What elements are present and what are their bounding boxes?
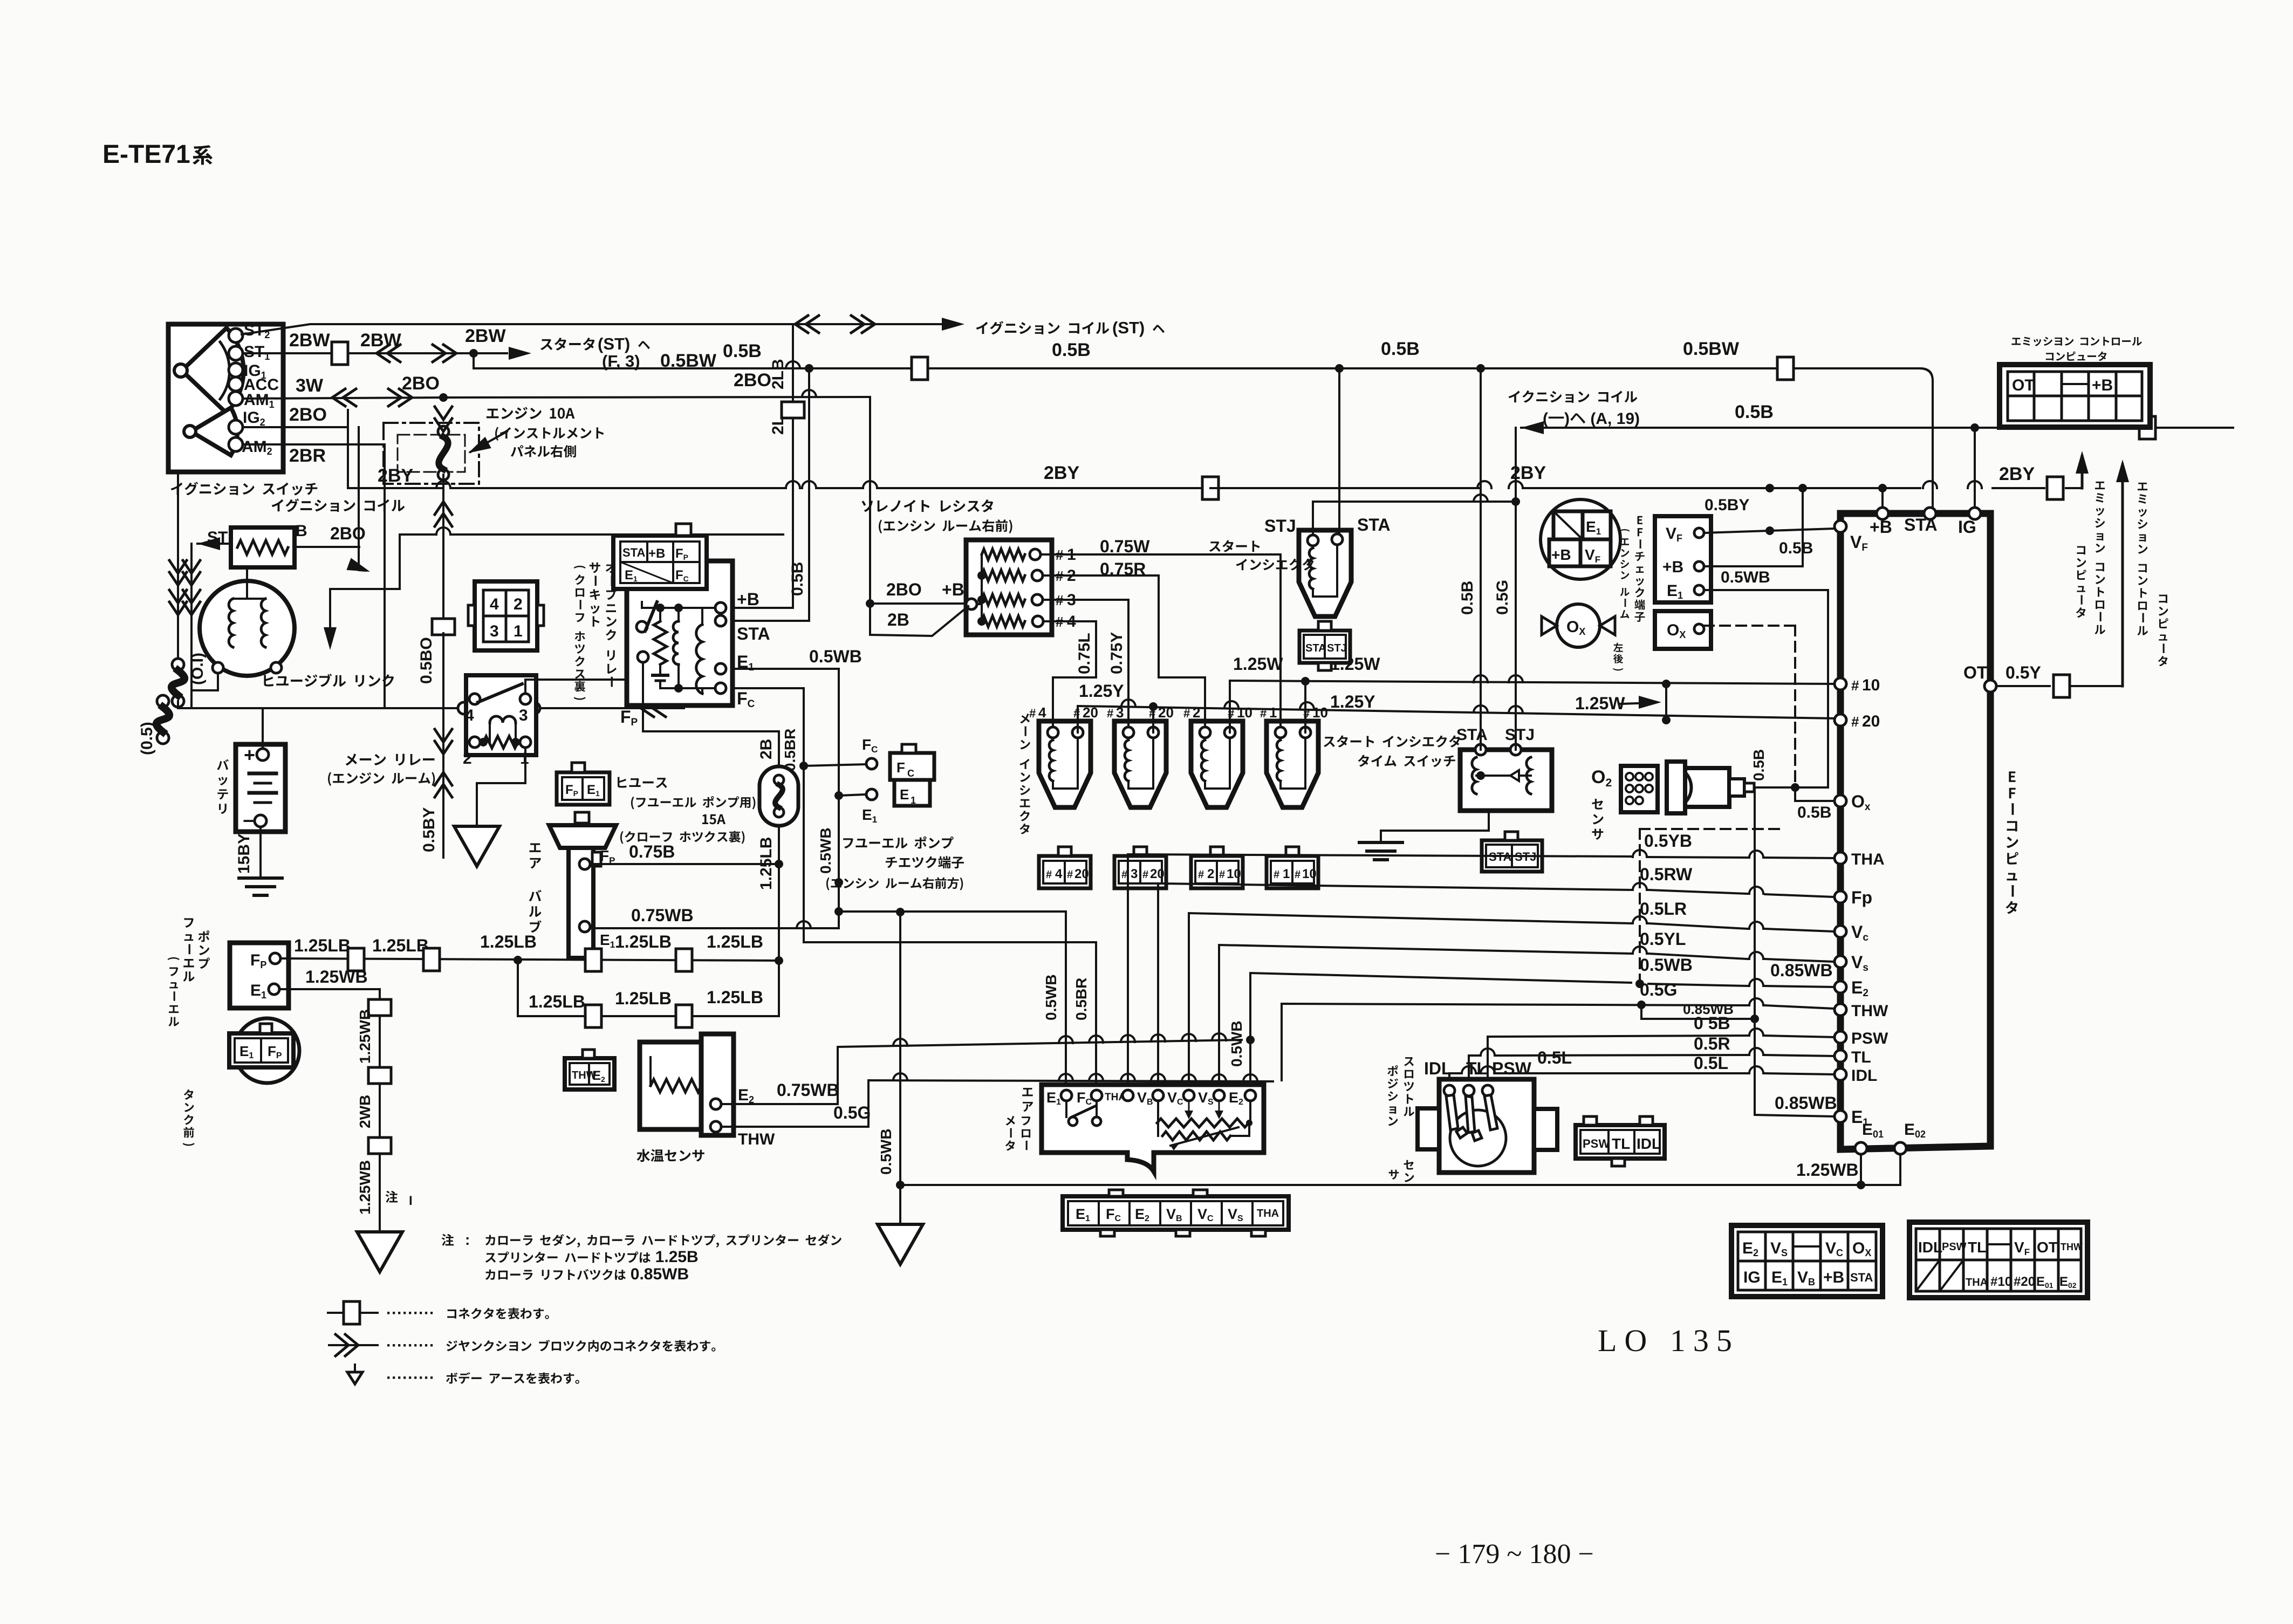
relay connector STA +B FP / E1 FC xyxy=(613,536,707,589)
svg-text:THA: THA xyxy=(1966,1277,1988,1289)
svg-text:0.5WB: 0.5WB xyxy=(809,647,862,666)
svg-text:+B: +B xyxy=(1870,517,1892,537)
svg-text:TL: TL xyxy=(1612,1135,1630,1152)
svg-text:0.85WB: 0.85WB xyxy=(1770,961,1833,980)
air valve body xyxy=(549,825,616,848)
svg-text:+B: +B xyxy=(1662,558,1683,576)
throttle connector PSW TL IDL xyxy=(1576,1125,1665,1159)
relay top wire xyxy=(642,607,721,609)
wire 0.5YB THA xyxy=(1128,854,1631,1089)
wire 0.5BO down from fuse xyxy=(435,419,452,431)
air valve Fp terminal xyxy=(579,859,590,869)
svg-text:TL: TL xyxy=(1968,1239,1986,1256)
wire 0.75WB water temp xyxy=(721,1047,838,1104)
svg-text:PSW: PSW xyxy=(1942,1241,1967,1253)
wire 2BO input xyxy=(870,602,966,605)
svg-text:STJ: STJ xyxy=(1264,516,1296,536)
svg-text:#: # xyxy=(1219,869,1225,881)
svg-text:0.5RW: 0.5RW xyxy=(1640,865,1693,884)
svg-text:0.5YL: 0.5YL xyxy=(1640,929,1686,949)
svg-text:+B: +B xyxy=(737,590,759,609)
svg-text:Ox: Ox xyxy=(1851,792,1871,813)
EFI connector table 1 xyxy=(1731,1225,1883,1297)
svg-text:0.5BY: 0.5BY xyxy=(1705,496,1749,514)
caption solenoid resistor xyxy=(861,499,993,512)
svg-text:4: 4 xyxy=(465,707,474,724)
svg-text:0.5WB: 0.5WB xyxy=(1640,955,1693,975)
svg-text:OT: OT xyxy=(2037,1239,2058,1256)
svg-text:4: 4 xyxy=(1055,867,1063,881)
legend junction symbol xyxy=(329,1344,378,1346)
wire 0.5YL Vs xyxy=(1219,945,1631,1089)
svg-text:+: + xyxy=(244,744,255,766)
svg-text:0.5LR: 0.5LR xyxy=(1640,899,1687,919)
svg-text:3: 3 xyxy=(1131,867,1138,881)
connector 1.25WB a xyxy=(368,999,391,1016)
wire E01 E02 to 1.25WB xyxy=(1860,1154,1862,1185)
svg-text:Vc: Vc xyxy=(1851,922,1868,943)
wire 0.5G THW xyxy=(1282,1004,1748,1080)
wire fuel pump E1 1.25WB xyxy=(279,989,380,1231)
svg-text:1.25W: 1.25W xyxy=(1575,694,1625,713)
wire Ox dashed xyxy=(1704,625,1795,627)
main relay pin2 xyxy=(469,737,480,748)
time switch contact xyxy=(1510,770,1519,781)
wire distributor left down xyxy=(191,673,218,690)
wire 0.5BY to relay xyxy=(442,785,444,820)
svg-text:#: # xyxy=(1029,707,1036,720)
wire injector4 pin20 up xyxy=(1077,706,1079,732)
svg-text:3: 3 xyxy=(519,707,528,724)
relay coil2 xyxy=(696,625,702,694)
wire water temp E2 line xyxy=(838,1040,1242,1047)
svg-text:0.5WB: 0.5WB xyxy=(878,1128,894,1175)
AFM potentiometer xyxy=(1157,1119,1249,1127)
caption circuit opening relay xyxy=(590,563,600,627)
check terminal box xyxy=(1655,516,1711,602)
main relay resistor xyxy=(483,736,518,748)
wire 0.5B top bus xyxy=(474,353,1920,368)
ignition coil box xyxy=(231,527,295,567)
junction dot 2BY +B xyxy=(1798,484,1807,492)
svg-text:2LB: 2LB xyxy=(769,359,787,389)
wire check E1 0.5WB xyxy=(1704,590,1828,1019)
svg-text:0.5B: 0.5B xyxy=(1750,749,1767,781)
svg-text:#: # xyxy=(1107,707,1113,720)
terminal IG2 xyxy=(229,420,243,434)
svg-text:#: # xyxy=(1046,869,1052,881)
svg-text:STA: STA xyxy=(1904,515,1938,535)
wire 0.5B STA vertical xyxy=(1476,364,1485,373)
EFI pin #10 xyxy=(1835,678,1846,690)
relay coil1 xyxy=(673,621,679,664)
check VF pin xyxy=(1694,528,1704,538)
svg-text:0.5G: 0.5G xyxy=(1494,580,1511,615)
wire relay Fp to fuse xyxy=(643,705,779,766)
svg-text:IG: IG xyxy=(1958,517,1976,537)
svg-text:THW: THW xyxy=(2061,1242,2083,1252)
EFI pin E02 xyxy=(1894,1142,1906,1154)
connector 1.25LB c xyxy=(585,949,601,971)
wire 2B loop xyxy=(870,604,968,636)
svg-text:E-TE71: E-TE71 xyxy=(102,140,190,169)
svg-text:STA: STA xyxy=(1357,515,1391,535)
dot air valve E1 join xyxy=(834,878,843,887)
connector on 2BY xyxy=(1202,477,1219,499)
fuel pump Fp terminal xyxy=(270,953,280,964)
throttle position sensor body xyxy=(1439,1079,1534,1173)
svg-text:1.25LB: 1.25LB xyxy=(615,932,672,951)
fuse engine 10A xyxy=(438,426,449,437)
svg-text:1.25WB: 1.25WB xyxy=(305,967,368,986)
resistor r2 xyxy=(982,570,1025,581)
terminal AM1 xyxy=(229,392,243,406)
wire IG2 2BY xyxy=(243,427,443,488)
caption fuel pump xyxy=(183,918,194,982)
svg-text:#10: #10 xyxy=(1990,1274,2012,1289)
connector 1.25LB a xyxy=(348,948,364,971)
svg-text:THA: THA xyxy=(1105,1092,1126,1103)
svg-text:0.5BW: 0.5BW xyxy=(1683,339,1740,359)
connector 1.25WB c xyxy=(368,1138,391,1154)
throttle sensor circle xyxy=(1450,1110,1506,1166)
svg-text:1.25WB: 1.25WB xyxy=(357,1160,373,1215)
terminal ST2 xyxy=(229,328,243,342)
water temp connector THW E2 xyxy=(565,1058,614,1089)
EFI computer box xyxy=(1840,513,1990,1149)
water temp resistor xyxy=(651,1079,701,1092)
wire 0.5G STJ vertical xyxy=(1511,497,1520,506)
EFI pin TL xyxy=(1835,1050,1846,1062)
resistor r4 xyxy=(982,616,1025,627)
junction dot 0.75B xyxy=(775,860,783,868)
arrow to ignition coil ST xyxy=(942,318,964,331)
EFI pin THW xyxy=(1835,1004,1846,1016)
connector on 2BW xyxy=(332,342,348,365)
svg-text:E2: E2 xyxy=(738,1086,754,1105)
svg-text:20: 20 xyxy=(1074,867,1089,881)
svg-text:0.5YB: 0.5YB xyxy=(1644,831,1692,851)
connector on 0.5B xyxy=(912,357,928,380)
svg-text:0.5WB: 0.5WB xyxy=(1043,974,1059,1020)
svg-text:E1: E1 xyxy=(862,806,877,825)
svg-text:STJ: STJ xyxy=(1327,642,1347,654)
svg-text:2BW: 2BW xyxy=(289,330,330,351)
dot E1 branch xyxy=(834,791,843,800)
svg-text:PSW: PSW xyxy=(1492,1059,1532,1078)
arrow starter xyxy=(509,347,531,360)
svg-text:0 5B: 0 5B xyxy=(1694,1013,1730,1033)
svg-text:2BO: 2BO xyxy=(402,373,440,394)
svg-text:STA: STA xyxy=(1305,642,1326,654)
svg-text:STA: STA xyxy=(622,546,645,559)
svg-text:0.75WB: 0.75WB xyxy=(631,906,694,925)
junction dot 0.5B branch xyxy=(469,349,478,358)
wire 0.5B PSW xyxy=(1488,1036,1748,1085)
start injector body xyxy=(1299,530,1351,616)
svg-text:0.5BR: 0.5BR xyxy=(1073,978,1090,1020)
svg-text:3: 3 xyxy=(490,622,499,640)
caption start injector xyxy=(1209,540,1260,552)
junction block connector on ST line xyxy=(795,316,808,333)
junction dot start injector STA xyxy=(1335,364,1344,373)
wire injector3 pin20 up xyxy=(1152,706,1154,732)
wire injector2 pin10 up xyxy=(1229,681,1231,732)
hop 2BO over 0.5B vertical xyxy=(802,390,816,397)
svg-text:+B: +B xyxy=(942,580,964,599)
svg-text:TL: TL xyxy=(1851,1049,1871,1066)
svg-text:(一)ヘ (A, 19): (一)ヘ (A, 19) xyxy=(1543,410,1640,428)
svg-text:·········: ········· xyxy=(386,1337,435,1354)
fuse connector Fp E1 xyxy=(557,772,610,805)
svg-text:IDL: IDL xyxy=(1918,1239,1942,1256)
throttle pointers xyxy=(1446,1095,1497,1141)
wire 0.75L resistor4 to injector4 xyxy=(1043,621,1096,727)
EFI pin E01 xyxy=(1855,1142,1867,1154)
resistor r3 xyxy=(982,594,1025,605)
caption ignition coil xyxy=(272,498,405,512)
relay E1 pin xyxy=(715,663,726,674)
chevrons down left1 xyxy=(169,572,187,585)
resistor input bus xyxy=(981,554,983,621)
injector 2 xyxy=(1191,721,1243,807)
svg-text:VF: VF xyxy=(1850,532,1868,553)
terminal ACC xyxy=(229,377,243,391)
wire 0.75W resistor1 to injector1 xyxy=(1041,554,1281,727)
caption EFI check terminal xyxy=(1634,516,1645,622)
svg-text:0.5WB: 0.5WB xyxy=(817,827,834,874)
svg-text:0.5L: 0.5L xyxy=(1537,1048,1572,1067)
wire 2BO down to solenoid resistor xyxy=(869,397,871,604)
EFI pin Ox xyxy=(1835,795,1846,807)
ignition switch rotor 2 xyxy=(191,408,237,455)
svg-text:10: 10 xyxy=(1862,676,1880,694)
distributor coils xyxy=(229,599,233,647)
wire 0.75R resistor2 to injector2 xyxy=(1043,575,1205,727)
connector on 0.5BO xyxy=(432,619,455,635)
svg-text:FC: FC xyxy=(862,736,878,755)
wire 0.5WB to AFM E1 xyxy=(1065,912,1067,1089)
svg-text:0.5B: 0.5B xyxy=(723,341,762,361)
wire check +B 0.5B xyxy=(1704,492,1803,566)
connector on OT xyxy=(2054,675,2070,697)
AFM switch xyxy=(1069,1117,1077,1126)
arrow 2BY to emission computer xyxy=(2081,456,2084,488)
main relay switch xyxy=(478,684,522,702)
svg-text:2: 2 xyxy=(514,595,523,613)
svg-text:1.25B: 1.25B xyxy=(655,1248,699,1266)
wire O2 to Ox pin xyxy=(1754,786,1775,789)
svg-text::: : xyxy=(465,1231,470,1248)
hop over y992 line xyxy=(442,583,444,626)
svg-text:0.5R: 0.5R xyxy=(1694,1034,1730,1053)
connector on 2BY right xyxy=(2047,477,2063,499)
O2 sensor xyxy=(1621,766,1658,812)
svg-text:10: 10 xyxy=(1227,867,1241,881)
relay switch xyxy=(636,621,647,632)
svg-text:0.5B: 0.5B xyxy=(1381,339,1420,359)
injector 4 xyxy=(1039,721,1091,807)
caption main relay xyxy=(346,753,435,765)
stepped wire from right xyxy=(400,533,435,536)
svg-text:0.75W: 0.75W xyxy=(1100,537,1150,556)
AFM connector xyxy=(1063,1196,1289,1230)
throttle terminals xyxy=(1444,1085,1455,1096)
svg-text:10: 10 xyxy=(1302,867,1317,881)
wire 0.5L IDL xyxy=(1449,1073,1460,1085)
svg-text:0.5B: 0.5B xyxy=(789,562,806,596)
svg-text:2BR: 2BR xyxy=(289,446,326,466)
wire 0.5LR Vc xyxy=(1189,913,1631,1089)
wire OT 0.5Y xyxy=(1996,685,2050,687)
svg-text:20: 20 xyxy=(1150,867,1165,881)
connector 1.25LB d xyxy=(676,949,692,971)
terminal IG1 xyxy=(229,363,243,377)
wire injector1 pin10 up xyxy=(1304,681,1306,732)
svg-text:1.25LB: 1.25LB xyxy=(529,992,585,1011)
svg-text:2L: 2L xyxy=(769,416,787,435)
svg-text:#: # xyxy=(1067,869,1073,881)
check E1 pin xyxy=(1694,585,1704,595)
svg-text:THA: THA xyxy=(1851,851,1885,868)
svg-text:1: 1 xyxy=(1283,867,1290,881)
start injector time switch box xyxy=(1460,750,1552,811)
junction dot 2BY 0.5BY xyxy=(1765,484,1774,492)
resistor r1 xyxy=(982,549,1025,560)
svg-text:1.25LB: 1.25LB xyxy=(372,936,429,955)
svg-text:(ST): (ST) xyxy=(1112,318,1145,337)
caption fuse 15A xyxy=(618,777,667,788)
wire battery plus xyxy=(262,708,264,749)
svg-text:1.25LB: 1.25LB xyxy=(707,932,763,951)
svg-text:1.25WB: 1.25WB xyxy=(1796,1160,1859,1180)
svg-text:#: # xyxy=(1303,707,1310,720)
svg-text:15BY: 15BY xyxy=(235,833,253,874)
svg-text:+B: +B xyxy=(648,546,665,561)
wire main relay to ground xyxy=(477,748,525,825)
distributor terminals xyxy=(213,662,223,673)
svg-text:TL: TL xyxy=(1466,1059,1487,1078)
svg-text:F: F xyxy=(896,759,905,776)
svg-text:I: I xyxy=(409,1194,413,1208)
battery box xyxy=(236,744,285,832)
terminal AM2 xyxy=(229,437,243,451)
fuel pump E1 terminal xyxy=(269,984,279,995)
time switch connector STA STJ xyxy=(1482,840,1542,872)
junction dot engine fuse xyxy=(439,393,448,402)
relay bottom wire xyxy=(659,681,661,688)
svg-text:1.25WB: 1.25WB xyxy=(357,1009,373,1064)
emission control computer connector xyxy=(2000,365,2150,427)
svg-text:0.5L: 0.5L xyxy=(1694,1053,1728,1073)
svg-text:IG: IG xyxy=(1743,1269,1761,1286)
main relay box xyxy=(466,675,536,755)
chevrons 0.5BO xyxy=(442,725,444,820)
fuel pump box xyxy=(230,943,289,1008)
distributor body xyxy=(200,581,295,676)
time switch STJ pin xyxy=(1510,744,1521,755)
svg-text:1.25LB: 1.25LB xyxy=(615,989,672,1008)
legend ground symbol xyxy=(347,1372,362,1384)
wire VF line xyxy=(1765,526,1774,535)
fusible link 0.1 xyxy=(172,659,184,670)
connector on 0.5B coil minus xyxy=(2139,416,2155,439)
circuit opening relay box xyxy=(627,561,733,705)
injector 3 xyxy=(1114,721,1166,807)
svg-text:0.85WB: 0.85WB xyxy=(1775,1093,1837,1113)
wire 1.25WB bottom xyxy=(900,1184,1900,1186)
svg-text:−: − xyxy=(243,810,254,832)
start injector connector STA STJ xyxy=(1299,631,1350,663)
Ox check terminal xyxy=(1655,611,1711,649)
svg-text:0.75L: 0.75L xyxy=(1076,633,1093,674)
EFI pin VF xyxy=(1835,520,1846,532)
emission arrow 1 text xyxy=(2094,482,2105,634)
injector 1 xyxy=(1267,721,1318,807)
svg-text:+B: +B xyxy=(2092,376,2113,394)
wire 0.75Y resistor3 to injector3 xyxy=(1043,600,1128,727)
ignition switch rotor 1 xyxy=(182,328,243,413)
fuse 15A oval xyxy=(759,766,798,826)
fuel pump check terminal Fc xyxy=(866,758,877,769)
connector 1.25LB f xyxy=(676,1005,692,1027)
body ground 0.5WB xyxy=(878,1224,923,1264)
wire start injector STA from 0.5B xyxy=(1338,368,1340,534)
body ground fuel pump xyxy=(357,1232,402,1272)
svg-text:2BO: 2BO xyxy=(330,524,366,543)
wire to ignition coil minus 0.5B xyxy=(1521,421,1544,434)
label engine 10A xyxy=(487,407,574,420)
relay resistor xyxy=(654,621,667,664)
EFI pin IDL xyxy=(1835,1068,1846,1080)
air valve E1 terminal xyxy=(579,921,590,932)
svg-text:IDL: IDL xyxy=(1851,1067,1877,1085)
svg-text:#: # xyxy=(1851,677,1859,694)
check +B pin xyxy=(1694,561,1704,571)
battery + terminal xyxy=(257,749,269,760)
svg-text:STA: STA xyxy=(1456,726,1488,744)
time switch coils xyxy=(1472,757,1476,794)
wire left vertical 2 xyxy=(190,544,193,708)
arrow to fuse xyxy=(470,431,507,452)
dot Fc branch xyxy=(799,762,808,770)
caption EFI computer xyxy=(2005,771,2018,914)
svg-text:THW: THW xyxy=(738,1130,775,1148)
note text xyxy=(442,1234,454,1246)
wire IG to coil minus line xyxy=(1974,428,1976,508)
svg-text:2BO: 2BO xyxy=(734,370,771,390)
svg-text:3W: 3W xyxy=(296,375,324,396)
svg-text:Vs: Vs xyxy=(1851,953,1868,974)
svg-text:2WB: 2WB xyxy=(357,1095,373,1128)
water temp terminals xyxy=(710,1099,721,1109)
junction block connector 2BO xyxy=(332,389,345,406)
svg-text:PSW: PSW xyxy=(1583,1137,1610,1150)
svg-text:1.25LB: 1.25LB xyxy=(707,988,763,1007)
wire 0.75B xyxy=(590,863,779,865)
svg-text:0.5B: 0.5B xyxy=(1459,581,1476,615)
svg-text:0.5BY: 0.5BY xyxy=(420,807,438,852)
EFI pin Fp xyxy=(1835,891,1846,903)
connector 4-2-3-1 box xyxy=(475,581,537,650)
terminal ST1 xyxy=(229,346,243,360)
svg-text:1: 1 xyxy=(1269,704,1277,721)
wire 3W AM1 drop xyxy=(347,410,349,427)
wire fuel pump Fp 1.25LB xyxy=(280,958,779,961)
fuel pump check terminal E1 xyxy=(866,789,877,800)
connector 1.25WB b xyxy=(368,1067,391,1084)
EFI pin OT xyxy=(1984,680,1996,692)
